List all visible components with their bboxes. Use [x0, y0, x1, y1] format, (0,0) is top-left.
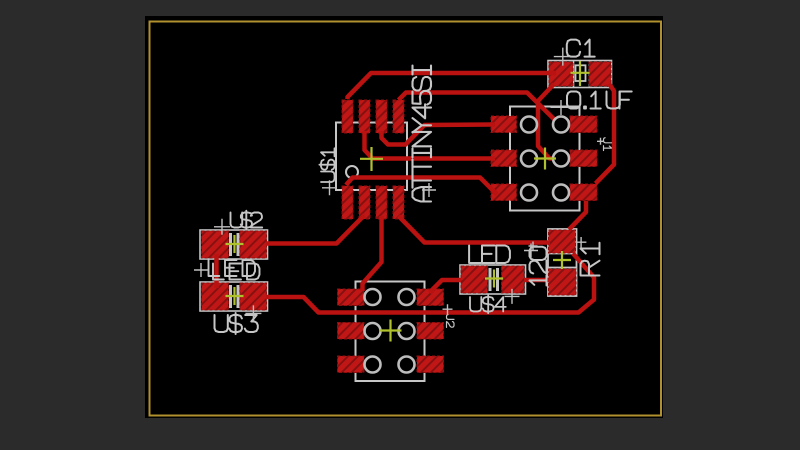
- J1 hole 4: [553, 151, 569, 167]
- J2 pad 5 left: [338, 356, 365, 373]
- label ATTINY45SI: [413, 66, 432, 202]
- U$1 pad1 (top row): [342, 100, 353, 133]
- cross U$2: [214, 219, 230, 235]
- wire C1 pad2 to J1 pad6: [596, 84, 615, 184]
- J2 hole 2: [399, 289, 415, 305]
- wire J1 pad6 to R1 pad1: [569, 201, 586, 230]
- origin J1: [534, 148, 556, 170]
- J1 pad 6 right: [570, 184, 597, 201]
- origin R1: [553, 251, 571, 269]
- J2 hole 4: [399, 323, 415, 339]
- J2 hole 3: [365, 323, 381, 339]
- cross R1: [576, 237, 587, 248]
- J1 pad 3 left: [491, 150, 517, 167]
- label U$2: [231, 211, 263, 230]
- U$1 pad4: [393, 100, 404, 133]
- label C1: [567, 40, 595, 57]
- label U$1: [319, 148, 336, 182]
- LED U$3 cathode bars: [229, 285, 232, 308]
- cross J1: [597, 138, 604, 145]
- label J1 tiny: [604, 138, 612, 151]
- origin U$1: [360, 147, 383, 171]
- wire U$4 pad A to J2 pad2: [430, 280, 462, 293]
- label 0.1 UF: [567, 92, 632, 109]
- label LED U$3 value: [213, 264, 260, 280]
- J1 hole 6: [553, 185, 569, 201]
- capacitor C1 outline: [548, 61, 612, 88]
- header J2 outline: [356, 282, 425, 382]
- J1 hole 1: [521, 117, 537, 133]
- J2 hole 6: [399, 357, 415, 373]
- LED U$4 cathode bars: [489, 268, 492, 291]
- cross U$1: [322, 180, 337, 195]
- wire U$1 pad6 to U$2 pad K: [266, 215, 365, 244]
- board canvas: [145, 16, 663, 418]
- label 120 R1 value: [530, 247, 547, 286]
- wire U$1 pad2 to J1 pad3: [365, 131, 496, 159]
- J1 hole 3: [521, 151, 537, 167]
- wire U$1 pad3 to J1 pad1: [382, 125, 496, 145]
- U$2 pad K: [240, 231, 267, 258]
- label R1: [581, 243, 600, 276]
- LED U$2 cathode bars: [229, 233, 232, 256]
- cross LED U$4: [524, 244, 538, 258]
- origin J2: [380, 320, 402, 342]
- C1 pad 2: [589, 62, 611, 86]
- J2 pad 6 right: [417, 356, 444, 373]
- J1 hole 2: [553, 117, 569, 133]
- wire U$1 pad5 to J1 pad5: [346, 178, 497, 195]
- cross 120: [529, 242, 538, 251]
- cross C1: [554, 48, 572, 66]
- R1 pad 1: [549, 230, 576, 253]
- U$1 pad8: [393, 186, 404, 219]
- R1 pad 2: [549, 269, 577, 295]
- label LED U$2 value: [209, 260, 256, 276]
- J1 hole 5: [521, 185, 537, 201]
- cross 0.1UF: [551, 100, 572, 115]
- J2 pad 1 left: [338, 289, 365, 306]
- J2 pad 2 right: [417, 289, 444, 306]
- J1 pad 1 left: [491, 116, 517, 133]
- U$3 pad K: [240, 283, 267, 310]
- cross U$3: [245, 305, 261, 321]
- U$1 pad7: [376, 186, 387, 219]
- label U$3: [215, 313, 258, 334]
- wire U$1 pad1 to C1 pad1: [348, 73, 557, 99]
- resistor R1 outline: [548, 229, 577, 296]
- LED U$2 outline: [200, 230, 268, 259]
- U$1 pad2: [359, 100, 370, 133]
- origin U$3: [226, 287, 244, 305]
- wire U$2 pad A to U$3 pad A: [214, 254, 219, 288]
- J2 pad 3 left: [338, 323, 365, 340]
- U$2 pad A: [202, 231, 229, 258]
- J1 pad 5 left: [491, 184, 517, 201]
- U$1 pad6: [359, 186, 370, 219]
- C1 pad 1: [549, 62, 573, 86]
- label U$4: [470, 295, 506, 313]
- label J2 tiny: [447, 315, 455, 328]
- J2 pad 4 right: [417, 323, 444, 340]
- cross J2: [443, 304, 453, 314]
- LED U$3 outline: [200, 282, 268, 311]
- label LED U$4 value: [469, 246, 510, 264]
- IC U$1 body outline: [336, 123, 407, 191]
- cross LED left: [194, 263, 208, 277]
- cross ATTINY: [422, 183, 436, 197]
- wire U$1 pad7 to J2 pad1: [363, 216, 382, 291]
- wire U$1 pad8 to R1 pad1: [399, 216, 551, 243]
- wire U$1 pad4 to J1 pad2: [399, 93, 561, 126]
- origin U$4: [485, 270, 503, 288]
- U$3 pad A: [202, 283, 229, 310]
- C1 center plate box: [576, 65, 586, 81]
- cross U$4: [505, 289, 520, 304]
- U$1 pad3: [376, 100, 387, 133]
- wire U$4 pad K to R1 pad2: [524, 278, 549, 283]
- wire U$3 pad K to R1 pad1 (loop): [266, 254, 594, 313]
- origin C1: [571, 61, 590, 86]
- J1 pad 2 right: [570, 116, 597, 133]
- IC U$1 pin-1 circle: [346, 166, 358, 178]
- origin U$2: [226, 235, 244, 253]
- header J1 outline: [510, 107, 580, 211]
- J1 pad 4 right: [570, 150, 597, 167]
- U$4 pad K: [502, 266, 525, 293]
- wire C1 pad1 to J1 pad4: [538, 84, 567, 159]
- U$1 pad5 (bottom row): [342, 186, 353, 219]
- J2 hole 5: [365, 357, 381, 373]
- LED U$4 outline: [460, 265, 526, 294]
- U$4 pad A: [461, 266, 488, 293]
- board outline frame (layer Dimension, yellow): [150, 22, 662, 416]
- J2 hole 1: [365, 289, 381, 305]
